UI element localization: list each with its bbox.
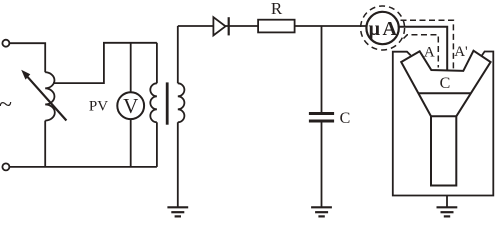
- svg-text:A': A': [454, 44, 468, 60]
- svg-text:PV: PV: [89, 99, 108, 115]
- svg-text:R: R: [271, 0, 283, 18]
- svg-text:A: A: [424, 44, 435, 60]
- svg-text:~: ~: [0, 92, 12, 118]
- svg-text:C: C: [340, 110, 351, 127]
- svg-text:C: C: [440, 75, 451, 92]
- svg-text:V: V: [123, 94, 138, 118]
- svg-text:μA: μA: [369, 18, 400, 40]
